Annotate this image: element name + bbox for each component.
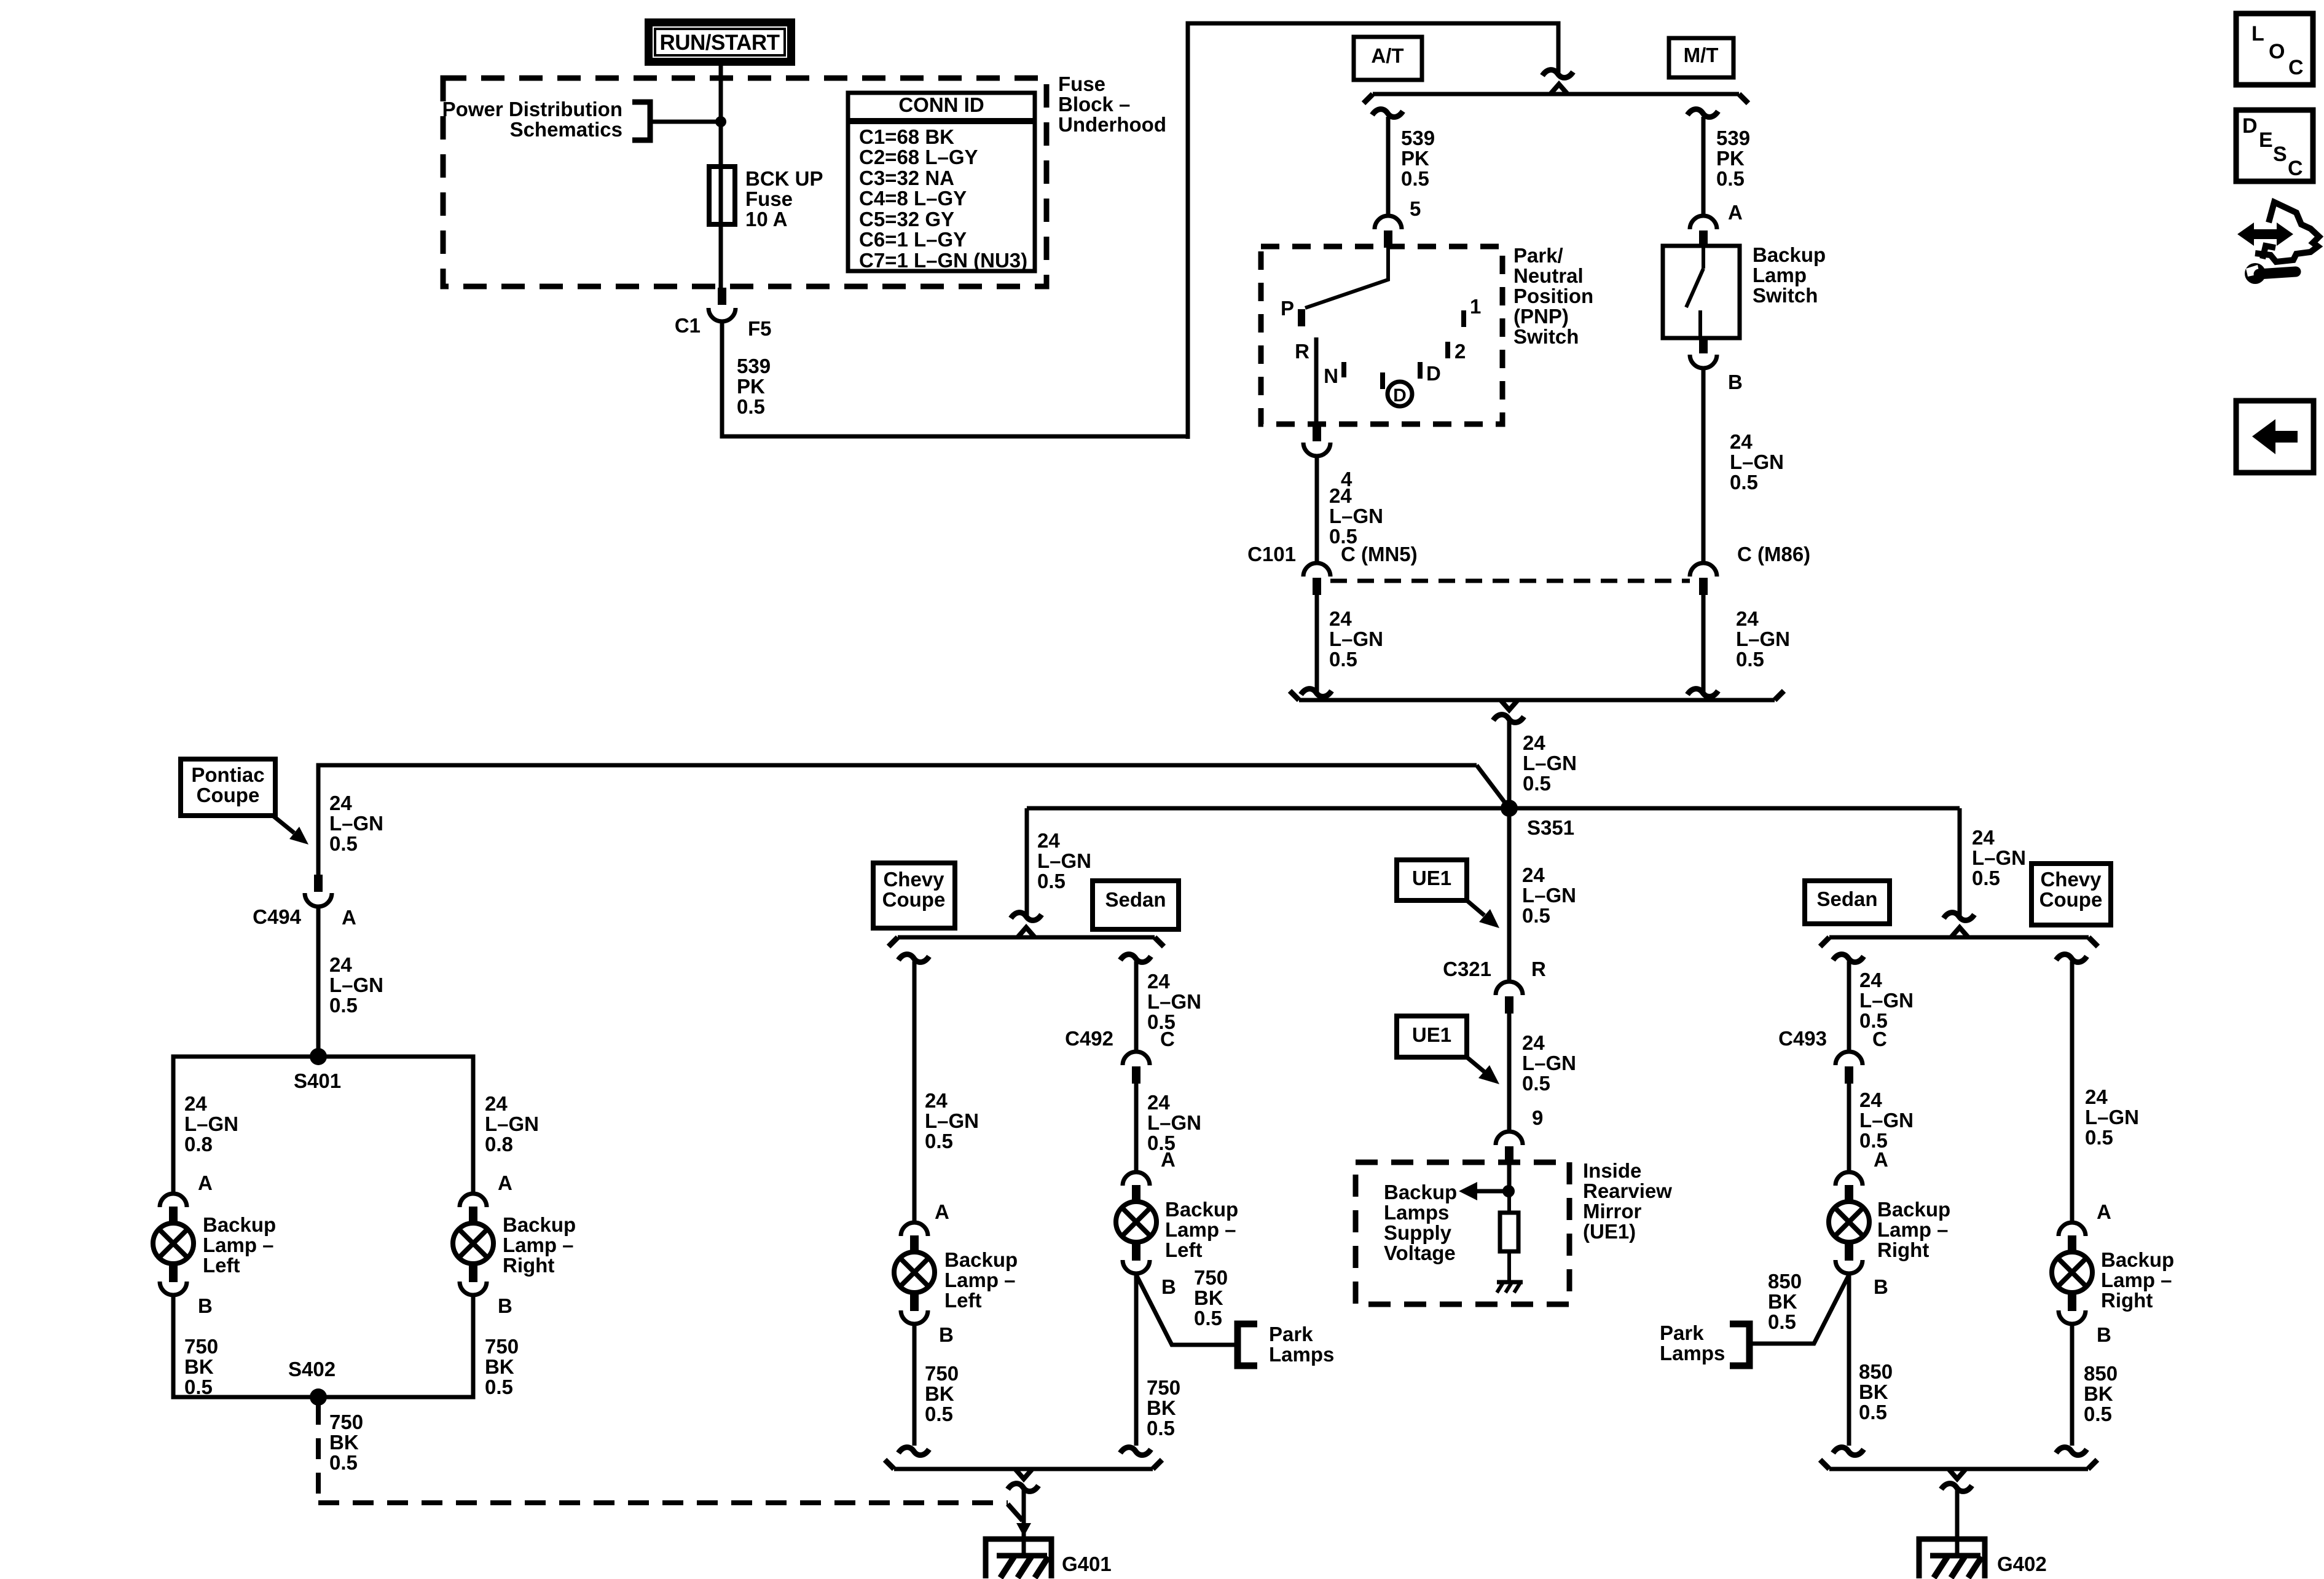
svg-text:0.8: 0.8 <box>184 1133 213 1156</box>
wire RUN/START to fuse <box>719 64 723 289</box>
svg-text:BK: BK <box>329 1431 359 1454</box>
svg-text:Block –: Block – <box>1058 93 1130 116</box>
svg-text:0.5: 0.5 <box>1859 1401 1887 1423</box>
svg-text:L–GN: L–GN <box>329 812 383 835</box>
svg-text:PK: PK <box>1716 147 1745 170</box>
svg-text:24: 24 <box>1972 826 1995 849</box>
svg-text:RUN/START: RUN/START <box>659 31 779 55</box>
svg-text:Switch: Switch <box>1753 284 1818 307</box>
wire 750 BK to ground brace <box>913 1325 917 1446</box>
label box Chevy Coupe (right) <box>2032 864 2111 925</box>
svg-text:C493: C493 <box>1778 1027 1827 1050</box>
svg-text:24: 24 <box>1147 970 1170 993</box>
svg-text:B: B <box>1161 1275 1176 1298</box>
svg-text:0.5: 0.5 <box>485 1376 513 1398</box>
wire 24 L-GN 0.5 switch to C(M86) <box>1702 369 1706 562</box>
svg-text:C (M86): C (M86) <box>1737 543 1810 565</box>
svg-text:L–GN: L–GN <box>1859 1109 1914 1132</box>
svg-text:B: B <box>498 1294 512 1317</box>
svg-text:Lamps: Lamps <box>1269 1343 1334 1366</box>
svg-text:0.5: 0.5 <box>1522 1072 1550 1095</box>
svg-text:BK: BK <box>1859 1380 1888 1403</box>
dashed connector line C101 <box>1330 579 1690 583</box>
svg-text:UE1: UE1 <box>1412 867 1451 889</box>
svg-text:24: 24 <box>1859 969 1882 991</box>
svg-text:A: A <box>1161 1148 1176 1171</box>
ground G401 <box>1022 1538 1026 1557</box>
svg-text:Backup: Backup <box>1165 1198 1238 1221</box>
svg-text:B: B <box>939 1323 954 1346</box>
fuse block - underhood dashed box <box>443 78 1046 286</box>
arrow Pontiac Coupe callout <box>273 816 294 833</box>
svg-text:24: 24 <box>1523 731 1545 754</box>
box A/T <box>1354 37 1422 80</box>
svg-text:Coupe: Coupe <box>197 784 260 806</box>
brace merge to G401 <box>894 1467 1153 1471</box>
svg-text:0.5: 0.5 <box>1730 471 1758 494</box>
svg-text:0.5: 0.5 <box>329 832 358 855</box>
svg-text:Backup: Backup <box>1877 1198 1950 1221</box>
svg-text:10 A: 10 A <box>745 208 787 230</box>
svg-text:A: A <box>935 1200 949 1223</box>
node RUN/START (ignition feed) <box>645 18 795 66</box>
wire 24 L-GN 0.5 C493 to lamp <box>1847 1082 1851 1172</box>
svg-text:L–GN: L–GN <box>485 1112 539 1135</box>
svg-text:850: 850 <box>1859 1360 1893 1383</box>
svg-text:Lamp –: Lamp – <box>2101 1269 2172 1291</box>
svg-text:Lamp –: Lamp – <box>1165 1218 1236 1241</box>
svg-text:BK: BK <box>485 1355 514 1378</box>
svg-text:0.5: 0.5 <box>1523 772 1551 795</box>
wire bracket to junction <box>650 120 721 124</box>
svg-text:Supply: Supply <box>1384 1221 1452 1244</box>
svg-text:A: A <box>1728 201 1743 224</box>
svg-text:750: 750 <box>1147 1376 1180 1399</box>
svg-text:0.5: 0.5 <box>1972 867 2000 889</box>
wire spur to park lamps (right) <box>1752 1275 1849 1344</box>
wire diagonal into splice S351 <box>1477 765 1509 808</box>
wire 24 L-GN 0.5 bus to left group <box>1025 808 1029 915</box>
arrow UE1 lower callout <box>1467 1057 1484 1072</box>
backup lamp switch box <box>1663 246 1740 338</box>
svg-text:C492: C492 <box>1065 1027 1113 1050</box>
label box UE1 (lower) <box>1397 1016 1467 1057</box>
svg-text:C3=32 NA: C3=32 NA <box>859 167 954 189</box>
svg-text:A/T: A/T <box>1371 44 1403 67</box>
svg-text:G402: G402 <box>1997 1553 2047 1575</box>
svg-text:750: 750 <box>329 1411 363 1433</box>
svg-text:C: C <box>2288 56 2304 79</box>
svg-text:A: A <box>342 906 356 929</box>
icon LOC box <box>2236 14 2313 85</box>
svg-text:B: B <box>2097 1323 2111 1346</box>
PNP switch dashed box <box>1261 246 1502 424</box>
PNP contact N <box>1341 362 1346 377</box>
svg-text:24: 24 <box>1522 1031 1545 1054</box>
svg-text:R: R <box>1531 958 1546 980</box>
wire 850 BK to ground brace <box>2070 1325 2075 1446</box>
svg-text:S351: S351 <box>1527 816 1574 839</box>
svg-text:C: C <box>1872 1028 1887 1050</box>
svg-text:PK: PK <box>737 375 765 398</box>
svg-text:2: 2 <box>1454 340 1466 363</box>
label box Sedan (right) <box>1805 881 1890 924</box>
svg-text:539: 539 <box>737 355 771 377</box>
svg-text:Inside: Inside <box>1583 1159 1641 1182</box>
svg-text:Mirror: Mirror <box>1583 1200 1642 1223</box>
svg-text:0.8: 0.8 <box>485 1133 513 1156</box>
svg-text:Chevy: Chevy <box>883 868 944 891</box>
connector pin A of backup lamp switch <box>1690 216 1717 229</box>
brace merge of A/T and M/T wires <box>1299 698 1775 703</box>
svg-text:24: 24 <box>184 1092 207 1115</box>
svg-text:B: B <box>1728 371 1743 393</box>
svg-text:P: P <box>1281 297 1294 320</box>
PNP contact D <box>1418 362 1423 379</box>
wire 24 L-GN 0.5 PNP to C101 <box>1315 457 1319 562</box>
svg-text:0.5: 0.5 <box>1768 1310 1796 1333</box>
wire 850 BK 0.5 sedan lamp to ground brace <box>1847 1275 1851 1446</box>
svg-text:Left: Left <box>203 1254 240 1277</box>
svg-text:Chevy: Chevy <box>2040 868 2102 891</box>
svg-text:Neutral: Neutral <box>1513 264 1584 287</box>
svg-text:24: 24 <box>1329 607 1352 630</box>
svg-text:24: 24 <box>1522 864 1545 886</box>
wire break squiggle at transmission split <box>1542 70 1573 78</box>
svg-text:L–GN: L–GN <box>1522 884 1576 907</box>
wire feed to Pontiac Coupe branch <box>318 765 1477 876</box>
svg-text:Power Distribution: Power Distribution <box>442 98 622 120</box>
svg-text:0.5: 0.5 <box>925 1130 953 1152</box>
brace merge to G402 <box>1829 1467 2088 1471</box>
svg-text:M/T: M/T <box>1684 44 1719 66</box>
wire 24 L-GN 0.5 Chevy coupe right drop <box>2056 955 2087 963</box>
icon DESC box <box>2236 110 2313 181</box>
svg-text:L–GN: L–GN <box>2085 1106 2139 1128</box>
svg-text:BK: BK <box>1768 1290 1797 1313</box>
label box Pontiac Coupe <box>181 759 275 816</box>
svg-text:24: 24 <box>1859 1089 1882 1111</box>
svg-text:UE1: UE1 <box>1412 1023 1451 1046</box>
wire to ground G402 <box>1941 1484 1972 1492</box>
svg-text:24: 24 <box>1037 829 1060 852</box>
inside rearview mirror dashed box <box>1356 1162 1569 1304</box>
wire 539 PK 0.5 from C1 to A/T-M/T split <box>722 321 1188 436</box>
wire spur to park lamps (left) <box>1136 1275 1235 1345</box>
brace split to A/T and M/T <box>1373 92 1739 96</box>
wire 24 L-GN 0.5 S351 to C321 <box>1507 808 1512 980</box>
svg-text:L–GN: L–GN <box>1736 628 1790 650</box>
svg-text:D: D <box>1393 385 1407 406</box>
svg-text:Position: Position <box>1513 285 1593 307</box>
PNP contact 1 <box>1461 310 1466 327</box>
icon component location (car with arrow and wrench) <box>2237 222 2293 246</box>
svg-text:Lamps: Lamps <box>1384 1201 1449 1224</box>
svg-text:C6=1 L–GY: C6=1 L–GY <box>859 228 967 251</box>
svg-text:0.5: 0.5 <box>1716 167 1745 190</box>
svg-text:Schematics: Schematics <box>510 118 622 141</box>
label box Chevy Coupe (left) <box>873 863 955 928</box>
svg-text:0.5: 0.5 <box>329 1451 358 1474</box>
svg-text:C: C <box>2288 157 2303 180</box>
svg-text:D: D <box>1426 362 1441 385</box>
svg-text:Coupe: Coupe <box>882 888 946 911</box>
svg-text:C4=8 L–GY: C4=8 L–GY <box>859 187 967 210</box>
backup lamp switch contacts <box>1702 248 1705 269</box>
svg-text:L–GN: L–GN <box>1523 752 1577 774</box>
splice S402 <box>310 1388 327 1406</box>
svg-text:S: S <box>2273 143 2287 166</box>
wire lamps to S402 <box>173 1295 473 1397</box>
main bus wire 24 L-GN <box>1027 806 1960 811</box>
lamp backup lamp - left (Chevy Coupe) <box>901 1223 928 1236</box>
svg-text:0.5: 0.5 <box>737 395 765 418</box>
wire 24 L-GN 0.5 C494 to S401 <box>316 907 321 1057</box>
svg-text:Rearview: Rearview <box>1583 1179 1672 1202</box>
svg-text:L–GN: L–GN <box>184 1112 238 1135</box>
svg-text:Backup: Backup <box>503 1213 576 1236</box>
svg-text:1: 1 <box>1470 295 1481 318</box>
svg-text:Sedan: Sedan <box>1105 888 1166 911</box>
svg-text:Lamps: Lamps <box>1660 1342 1725 1364</box>
svg-text:BK: BK <box>184 1355 214 1378</box>
icon back arrow box <box>2236 401 2314 473</box>
svg-text:Right: Right <box>503 1254 554 1277</box>
PNP contact D (circled) <box>1380 372 1385 389</box>
lamp backup lamp - left (Pontiac) <box>160 1194 187 1207</box>
svg-text:850: 850 <box>2084 1362 2118 1385</box>
bracket power distribution reference <box>632 102 650 140</box>
lamp backup lamp - right (Sedan) <box>1835 1172 1863 1186</box>
svg-text:A: A <box>1874 1148 1888 1171</box>
svg-text:24: 24 <box>925 1089 948 1112</box>
brace split Sedan / Chevy Coupe (right) <box>1829 935 2089 940</box>
svg-text:Fuse: Fuse <box>1058 73 1105 95</box>
svg-text:Switch: Switch <box>1513 325 1579 348</box>
svg-text:L–GN: L–GN <box>1329 628 1383 650</box>
svg-text:Lamp –: Lamp – <box>203 1234 274 1256</box>
PNP contact 2 <box>1445 342 1450 358</box>
svg-text:L–GN: L–GN <box>1037 849 1091 872</box>
svg-text:Backup: Backup <box>2101 1248 2174 1271</box>
svg-text:C: C <box>1160 1028 1175 1050</box>
arrow backup lamps supply voltage <box>1477 1189 1509 1194</box>
svg-text:C (MN5): C (MN5) <box>1341 543 1418 565</box>
wire 24 L-GN 0.5 C321 to mirror <box>1507 1012 1512 1130</box>
arrow UE1 upper callout <box>1467 900 1485 915</box>
svg-text:850: 850 <box>1768 1270 1802 1293</box>
svg-text:Sedan: Sedan <box>1816 888 1877 910</box>
label box Sedan (left) <box>1093 881 1179 929</box>
svg-text:C321: C321 <box>1443 958 1491 980</box>
svg-text:0.5: 0.5 <box>2085 1126 2113 1149</box>
fuse F5 BCK UP 10 A <box>709 167 735 224</box>
svg-text:Left: Left <box>944 1289 982 1312</box>
connector C494 pin A <box>305 893 332 907</box>
connector pin B below backup lamp switch <box>1690 355 1717 368</box>
svg-text:Lamp: Lamp <box>1753 264 1807 286</box>
svg-text:A: A <box>198 1171 213 1194</box>
svg-text:L–GN: L–GN <box>1972 846 2026 869</box>
svg-text:Coupe: Coupe <box>2039 888 2103 911</box>
bracket park lamps (right) <box>1730 1324 1749 1366</box>
svg-text:C1: C1 <box>675 314 701 337</box>
wire 24 L-GN 0.5 Sedan right drop <box>1833 955 1864 963</box>
junction dot in mirror <box>1502 1185 1515 1197</box>
svg-text:750: 750 <box>184 1335 218 1358</box>
svg-text:Pontiac: Pontiac <box>191 763 264 786</box>
svg-text:0.5: 0.5 <box>1147 1417 1175 1439</box>
svg-text:A: A <box>2097 1200 2111 1223</box>
svg-text:539: 539 <box>1716 127 1750 149</box>
wire pin 9 into mirror <box>1507 1162 1512 1197</box>
CONN ID table <box>848 93 1035 271</box>
svg-text:0.5: 0.5 <box>1522 904 1550 927</box>
wire 24 L-GN 0.5 below C (M86) <box>1702 595 1706 692</box>
svg-text:0.5: 0.5 <box>1401 167 1429 190</box>
brace split Chevy Coupe / Sedan (left) <box>898 935 1155 940</box>
svg-text:C494: C494 <box>253 905 302 928</box>
svg-text:N: N <box>1324 364 1338 387</box>
wire 750 BK 0.5 sedan lamp to ground brace <box>1134 1275 1139 1446</box>
svg-text:0.5: 0.5 <box>1194 1307 1222 1329</box>
svg-text:L–GN: L–GN <box>1522 1052 1576 1074</box>
svg-text:C1=68 BK: C1=68 BK <box>859 125 954 148</box>
svg-text:Voltage: Voltage <box>1384 1242 1456 1264</box>
connector C492 pin C <box>1123 1052 1150 1065</box>
lamp backup lamp - right (Chevy Coupe) <box>2059 1223 2086 1236</box>
label box UE1 (upper) <box>1397 860 1467 900</box>
svg-text:L–GN: L–GN <box>1147 990 1201 1013</box>
wire to ground G401 <box>1008 1484 1038 1492</box>
svg-text:BCK UP: BCK UP <box>745 167 823 190</box>
PNP switch blade from pin 5 to P <box>1305 248 1388 308</box>
wire 24 L-GN 0.5 to splice S351 <box>1493 715 1524 723</box>
svg-text:L–GN: L–GN <box>329 974 383 996</box>
wire 24 L-GN 0.5 Chevy coupe left lamp drop <box>898 955 929 963</box>
wire 24 L-GN 0.5 below C (MN5) <box>1315 595 1319 692</box>
svg-text:24: 24 <box>329 792 352 814</box>
svg-text:BK: BK <box>1194 1286 1223 1309</box>
svg-text:L–GN: L–GN <box>1859 989 1914 1012</box>
resistor in mirror <box>1507 1197 1511 1213</box>
wire 24 L-GN 0.5 Sedan left drop <box>1120 955 1151 963</box>
svg-text:750: 750 <box>1194 1266 1228 1289</box>
svg-text:Lamp –: Lamp – <box>1877 1218 1949 1241</box>
splice S351 <box>1501 800 1518 817</box>
svg-text:Backup: Backup <box>1753 243 1826 266</box>
svg-text:Right: Right <box>2101 1289 2153 1312</box>
svg-text:9: 9 <box>1532 1106 1543 1129</box>
svg-text:L–GN: L–GN <box>1147 1111 1201 1134</box>
svg-text:L–GN: L–GN <box>925 1109 979 1132</box>
wire resistor to internal ground <box>1507 1251 1511 1282</box>
svg-text:Lamp –: Lamp – <box>944 1269 1016 1291</box>
wire 539 PK 0.5 M/T branch <box>1687 109 1718 117</box>
svg-text:24: 24 <box>1147 1091 1170 1114</box>
svg-text:L–GN: L–GN <box>1730 451 1784 473</box>
svg-text:0.5: 0.5 <box>1736 648 1764 671</box>
svg-text:Right: Right <box>1877 1238 1929 1261</box>
svg-text:750: 750 <box>485 1335 519 1358</box>
connector C493 pin C <box>1835 1052 1863 1065</box>
svg-text:B: B <box>1874 1275 1888 1298</box>
svg-text:S402: S402 <box>288 1358 336 1380</box>
svg-text:B: B <box>198 1294 213 1317</box>
svg-text:PK: PK <box>1401 147 1429 170</box>
svg-text:24: 24 <box>1329 484 1352 507</box>
svg-text:(PNP): (PNP) <box>1513 305 1569 328</box>
svg-text:F5: F5 <box>748 317 772 340</box>
svg-text:(UE1): (UE1) <box>1583 1220 1636 1243</box>
wire 750 BK 0.5 dashed to G401 <box>316 1404 321 1503</box>
wire 24 L-GN 0.5 bus to right group <box>1958 808 1962 915</box>
ground internal (mirror) <box>1497 1280 1523 1285</box>
svg-text:S401: S401 <box>294 1069 341 1092</box>
svg-text:0.5: 0.5 <box>925 1403 953 1425</box>
svg-text:0.5: 0.5 <box>329 994 358 1017</box>
connector C1 pin F5 <box>718 288 726 305</box>
wire S401 loop to both lamps <box>173 1057 473 1194</box>
wire 24 L-GN 0.5 C492 to lamp <box>1134 1082 1139 1172</box>
svg-text:BK: BK <box>925 1382 954 1405</box>
svg-text:C7=1 L–GN (NU3): C7=1 L–GN (NU3) <box>859 249 1027 272</box>
lamp backup lamp - right (Pontiac) <box>460 1194 487 1207</box>
svg-text:O: O <box>2269 40 2285 63</box>
bracket park lamps (left) <box>1238 1324 1257 1366</box>
svg-text:Park/: Park/ <box>1513 244 1563 267</box>
PNP contact R and output line <box>1314 337 1319 425</box>
box M/T <box>1669 38 1733 77</box>
svg-text:D: D <box>2242 114 2258 138</box>
svg-text:C101: C101 <box>1247 543 1296 565</box>
svg-text:CONN ID: CONN ID <box>898 93 984 116</box>
svg-text:BK: BK <box>1147 1396 1176 1419</box>
connector C321 pin R <box>1496 982 1523 995</box>
svg-text:Left: Left <box>1165 1238 1203 1261</box>
ground G402 <box>1955 1538 1960 1557</box>
svg-text:750: 750 <box>925 1362 959 1385</box>
connector pin 5 of PNP switch <box>1375 216 1402 229</box>
connector C101 C (M86) <box>1690 563 1717 577</box>
svg-text:BK: BK <box>2084 1382 2113 1405</box>
svg-text:Lamp –: Lamp – <box>503 1234 574 1256</box>
svg-text:24: 24 <box>1736 607 1759 630</box>
svg-text:Backup: Backup <box>1384 1181 1457 1203</box>
svg-text:0.5: 0.5 <box>1037 870 1066 892</box>
svg-text:E: E <box>2259 128 2273 152</box>
svg-text:Park: Park <box>1269 1323 1313 1345</box>
lamp backup lamp - left (Sedan) <box>1123 1172 1150 1186</box>
svg-text:5: 5 <box>1410 197 1421 220</box>
svg-text:C2=68 L–GY: C2=68 L–GY <box>859 146 978 168</box>
svg-text:0.5: 0.5 <box>2084 1403 2112 1425</box>
svg-text:0.5: 0.5 <box>184 1376 213 1398</box>
svg-text:Backup: Backup <box>944 1248 1018 1271</box>
wire 539 PK 0.5 A/T branch <box>1372 109 1403 117</box>
splice S401 <box>310 1048 327 1065</box>
svg-text:C5=32 GY: C5=32 GY <box>859 208 954 230</box>
svg-text:Backup: Backup <box>203 1213 276 1236</box>
svg-text:539: 539 <box>1401 127 1435 149</box>
svg-text:R: R <box>1295 340 1309 363</box>
connector pin 4 below PNP switch <box>1303 443 1330 456</box>
svg-text:Park: Park <box>1660 1321 1704 1344</box>
PNP contact P <box>1298 309 1305 326</box>
svg-text:Underhood: Underhood <box>1058 113 1166 136</box>
connector pin 9 of inside rearview mirror <box>1496 1132 1523 1145</box>
svg-text:24: 24 <box>329 953 352 976</box>
